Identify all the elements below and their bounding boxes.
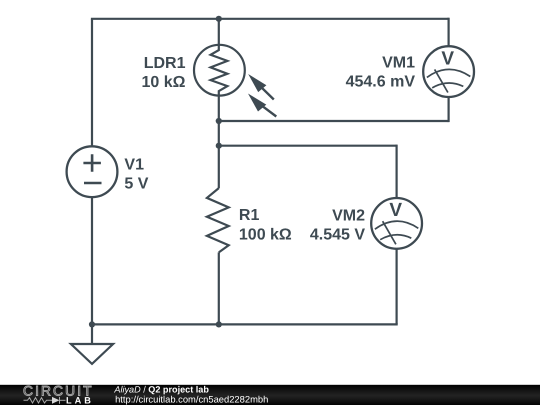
wire V1 bottom lead [91, 197, 93, 325]
resistor R1 [207, 188, 229, 252]
voltage source V1 [67, 146, 118, 197]
junction dot node B [216, 143, 222, 149]
svg-text:V: V [389, 200, 402, 221]
photoresistor LDR1 [194, 45, 245, 96]
junction dot top node [216, 16, 222, 22]
CircuitLab logo schematic squiggle and diode [24, 397, 66, 404]
wire VM1 bottom lead [448, 96, 450, 122]
svg-text:VM2: VM2 [332, 208, 365, 225]
voltmeter VM2 [371, 198, 422, 249]
svg-text:LAB: LAB [66, 395, 94, 405]
junction dot bottom node at R1 [216, 321, 222, 327]
wire LDR1 bottom lead [218, 95, 220, 188]
svg-text:http://circuitlab.com/cn5aed22: http://circuitlab.com/cn5aed2282mbh [115, 393, 268, 404]
wire R1 bottom lead [218, 252, 220, 324]
voltmeter VM1 [423, 46, 474, 97]
wire node-A horizontal (LDR1 to VM1) [219, 120, 449, 122]
wire top rail horizontal [91, 18, 449, 20]
junction dot ground node [89, 321, 95, 327]
footer attribution bar [0, 385, 540, 405]
svg-text:100 kΩ: 100 kΩ [239, 226, 292, 243]
footer top separator line [0, 384, 540, 385]
wire LDR1 top lead [218, 19, 220, 46]
svg-text:10 kΩ: 10 kΩ [142, 74, 186, 91]
svg-text:5 V: 5 V [124, 175, 148, 192]
svg-text:V: V [441, 48, 454, 69]
svg-text:VM1: VM1 [382, 55, 415, 72]
wire node-B horizontal (to VM2) [219, 145, 397, 147]
junction dot node A [216, 118, 222, 124]
wire VM1 top lead [448, 18, 450, 47]
svg-text:V1: V1 [124, 157, 144, 174]
svg-text:454.6 mV: 454.6 mV [346, 74, 416, 91]
svg-text:4.545 V: 4.545 V [310, 227, 365, 244]
svg-text:R1: R1 [239, 207, 260, 224]
wire VM2 bottom lead [396, 249, 398, 325]
LDR1 light arrow upper [248, 74, 274, 100]
LDR1 light arrow lower [248, 94, 276, 117]
ground [71, 324, 113, 364]
wire V1 top vertical [91, 19, 93, 147]
wire VM2 top lead [396, 145, 398, 199]
wire bottom rail horizontal [92, 323, 398, 325]
svg-text:LDR1: LDR1 [144, 55, 186, 72]
